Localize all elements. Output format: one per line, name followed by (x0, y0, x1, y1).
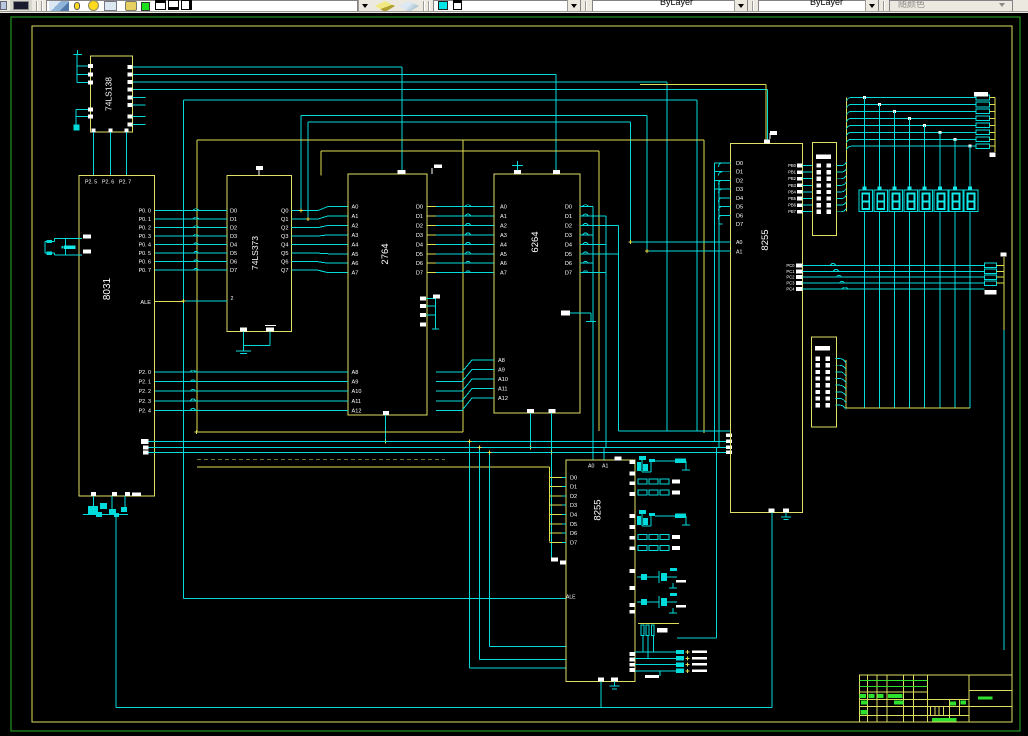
RN2 top bar (815, 346, 830, 351)
6264 VCC symbol top (512, 165, 523, 167)
ground at 8255 U4 (785, 513, 787, 517)
wires 6264 bottom to bus (530, 413, 532, 448)
svg-text:D5: D5 (736, 205, 743, 211)
wire ground rail from 8031 down (115, 514, 117, 707)
6264 WE pin right (561, 311, 570, 316)
RN1 output hooks (837, 162, 847, 166)
svg-text:D6: D6 (565, 261, 572, 267)
svg-text:PC2: PC2 (786, 275, 795, 280)
8031 bottom pins (91, 492, 96, 496)
address bus Q0-Q7 to 2764 A0-A7 (292, 207, 349, 211)
wire A0 to 8255 U5 top (592, 441, 594, 460)
svg-text:D2: D2 (416, 223, 423, 229)
svg-text:PB2: PB2 (788, 176, 797, 181)
svg-text:A9: A9 (498, 368, 505, 374)
sun icon (88, 0, 99, 11)
svg-text:D2: D2 (230, 226, 237, 232)
svg-text:P0. 5: P0. 5 (139, 251, 151, 257)
resistor network RN1 body (813, 143, 837, 236)
wire ALE vertical to 8255 U5 (183, 100, 185, 599)
svg-text:PB0: PB0 (788, 163, 797, 168)
PPI U5 8255 body (566, 460, 635, 681)
decoder U3 74LS138 body (91, 56, 133, 132)
2764 top pin (398, 170, 406, 174)
layer combo field (46, 0, 358, 12)
svg-text:ALE: ALE (140, 300, 151, 306)
2764 pull-up network (426, 298, 435, 300)
svg-text:Q6: Q6 (281, 260, 288, 266)
wire VCC to 74LS138 inputs (76, 55, 78, 83)
svg-text:D0: D0 (565, 205, 572, 211)
segment bus horizontals (846, 98, 851, 102)
8031 bus pins right lower (141, 439, 149, 444)
latch U2 74LS373 body (227, 176, 292, 332)
layer name text (155, 0, 166, 10)
6264 top pins (514, 170, 521, 174)
svg-text:D4: D4 (570, 513, 577, 519)
svg-text:A2: A2 (352, 223, 359, 229)
key driver Q2 cluster (639, 510, 646, 514)
svg-text:P2. 7: P2. 7 (119, 180, 131, 186)
plotstyle combo disabled (889, 0, 1013, 12)
wire 74LS138 Y0 to 2764 CE (133, 66, 402, 68)
bus cyan WR line (149, 447, 731, 449)
svg-text:2764: 2764 (380, 243, 391, 264)
reset circuit under 8031 (93, 496, 95, 506)
key driver Q1 output network (655, 460, 686, 462)
ground at 8255 U5 (614, 681, 616, 686)
bus A8-A12 to 6264 (436, 360, 494, 372)
svg-text:A1: A1 (602, 464, 608, 470)
toolbar bottom edge (0, 11, 1028, 12)
svg-text:8255: 8255 (760, 229, 771, 250)
svg-text:D3: D3 (230, 234, 237, 240)
lineweight combo (758, 0, 879, 12)
crystal X1 circuit (55, 238, 83, 240)
plot icon (125, 1, 137, 11)
key driver Q2 output network (655, 515, 686, 517)
wire yellow loop left (196, 140, 198, 432)
svg-text:D7: D7 (570, 540, 577, 546)
pull-up resistor column RP (638, 623, 679, 625)
74LS138 bottom pins (92, 129, 96, 133)
wire 74LS138 Y1 to 6264 CE (133, 74, 557, 76)
8255 U5 right-edge pins (630, 460, 635, 464)
svg-text:PB6: PB6 (788, 203, 797, 208)
svg-text:A1: A1 (352, 214, 359, 220)
layers stack icon (49, 1, 69, 11)
bus 2764 D to 6264 side (427, 206, 494, 208)
6264 data stubs to vertical bundle (580, 206, 593, 208)
svg-text:P0. 1: P0. 1 (139, 217, 151, 223)
svg-text:D1: D1 (416, 214, 423, 220)
svg-text:D2: D2 (565, 223, 572, 229)
svg-text:D0: D0 (736, 161, 743, 167)
svg-text:D4: D4 (230, 243, 237, 249)
LED indicator column (635, 651, 676, 653)
svg-text:A1: A1 (736, 249, 742, 255)
wires 74LS138 to 8031 P2.5-P2.7 (93, 132, 95, 175)
svg-text:74LS373: 74LS373 (250, 236, 260, 270)
svg-text:D6: D6 (416, 261, 423, 267)
svg-text:D1: D1 (230, 217, 237, 223)
svg-text:D4: D4 (736, 196, 743, 202)
wire ALE to latch (155, 301, 184, 303)
make-layer-current icon (375, 1, 395, 12)
svg-text:A4: A4 (500, 242, 507, 248)
svg-text:P0. 7: P0. 7 (139, 268, 151, 274)
8255 U5 bottom pins (598, 678, 604, 682)
svg-text:A0: A0 (588, 464, 594, 470)
driver stage Q4 (637, 601, 659, 603)
key driver Q1 cluster (639, 456, 646, 460)
wire A0 line from Q1 to 8255 U4 (307, 122, 309, 219)
wire U5 ground to rail (600, 681, 602, 707)
linetype combo (592, 0, 748, 12)
svg-text:Q0: Q0 (281, 209, 288, 215)
svg-text:A12: A12 (352, 408, 362, 414)
svg-text:PC1: PC1 (786, 269, 795, 274)
74LS138 left pins (88, 64, 93, 68)
svg-text:A0: A0 (736, 240, 742, 246)
svg-text:D7: D7 (565, 271, 572, 277)
svg-text:PB4: PB4 (788, 189, 797, 194)
8255 U4 bottom pins (769, 509, 775, 513)
key switch row S4 (638, 546, 647, 551)
svg-text:A7: A7 (500, 271, 507, 277)
2764 VPP flag symbol (434, 165, 442, 169)
wire bus to U5 pin row3 (488, 453, 490, 647)
svg-text:D6: D6 (570, 531, 577, 537)
wire yellow vertical at 8255 U4 left (703, 140, 705, 433)
svg-text:P0. 2: P0. 2 (139, 226, 151, 232)
svg-text:ALE: ALE (566, 595, 576, 601)
svg-text:D4: D4 (416, 242, 423, 248)
ground wire 74LS373 (243, 332, 245, 346)
title block text bars (860, 694, 993, 722)
svg-text:D5: D5 (416, 252, 423, 258)
svg-text:PB3: PB3 (788, 183, 797, 188)
svg-text:2: 2 (231, 296, 234, 302)
segment resistors R1-R8 right column (976, 95, 990, 100)
8255 U4 PC pin labels (796, 263, 803, 267)
lock icon (104, 1, 117, 11)
svg-text:6264: 6264 (530, 231, 541, 252)
bus cyan RD line (149, 440, 731, 442)
2764 control pins right (420, 297, 426, 301)
74LS138 right output stubs (133, 96, 146, 98)
svg-text:A5: A5 (352, 252, 359, 258)
wire 74LS138 Y2 down to bus (133, 81, 667, 83)
wire 8255 U4 ground down (771, 513, 773, 708)
color combo (433, 0, 581, 12)
svg-text:P0. 6: P0. 6 (139, 260, 151, 266)
wire ALE net top horizontal (184, 99, 698, 101)
wire 74LS138 Y3 to 8255 U4 CS (133, 88, 768, 90)
svg-text:A6: A6 (500, 261, 507, 267)
8255 U5 top pin (615, 457, 622, 461)
8255 U5 data rungs from yellow ladder (550, 476, 562, 478)
svg-text:P2. 4: P2. 4 (139, 408, 151, 414)
8255 U5 CS pin left (560, 561, 566, 565)
svg-text:A8: A8 (498, 358, 505, 364)
svg-text:A11: A11 (498, 387, 508, 393)
8031 left xtal pins (83, 235, 91, 239)
svg-text:D2: D2 (570, 494, 577, 500)
svg-text:A1: A1 (500, 214, 507, 220)
svg-text:8031: 8031 (102, 277, 113, 300)
bus phantom dashed line (197, 459, 445, 461)
svg-text:A6: A6 (352, 261, 359, 267)
vertical bundle 6264 data down (592, 207, 594, 442)
74LS373 LE pin symbol top (256, 166, 263, 170)
svg-text:Q3: Q3 (281, 234, 288, 240)
svg-text:P2. 0: P2. 0 (139, 370, 151, 376)
svg-text:A0: A0 (500, 205, 507, 211)
svg-text:D5: D5 (565, 252, 572, 258)
svg-text:Q2: Q2 (281, 226, 288, 232)
wires resistors to LED rows (642, 636, 644, 653)
toolbar partial icon left (0, 1, 7, 10)
bus yellow upper rail (197, 431, 463, 433)
8255 U4 A0 A1 wires (631, 241, 731, 243)
8255 U4 PA pins right (797, 164, 803, 168)
RN1 top bar (816, 155, 831, 160)
layer-previous icon (399, 1, 419, 12)
svg-text:P2. 2: P2. 2 (139, 389, 151, 395)
svg-text:PC3: PC3 (786, 281, 795, 286)
port C digit lines (803, 264, 985, 266)
RN2 resistor elements (816, 357, 821, 361)
bus cyan PSEN line (149, 452, 731, 454)
RN1 collector vertical yellow (845, 98, 847, 212)
SRAM U7 6264 body (494, 174, 580, 413)
svg-text:A4: A4 (352, 242, 359, 248)
bus pins at 8255 U4 left (726, 434, 732, 438)
wire bus to U5 pin row2 (478, 448, 480, 660)
wire cascade down to keypad drive (716, 448, 718, 638)
RN2 output hooks (836, 359, 846, 364)
svg-text:A9: A9 (352, 380, 359, 386)
2764 bottom pin and wire (383, 411, 389, 415)
6264 bottom pins (527, 409, 534, 413)
svg-text:A12: A12 (498, 396, 508, 402)
svg-text:D1: D1 (736, 170, 743, 176)
8255 U4 top pin (764, 140, 770, 144)
display column verticals (864, 98, 866, 409)
svg-text:A10: A10 (352, 389, 362, 395)
P2.0-P2.4 bus to 2764 A8-A12 (155, 371, 348, 373)
P0 data bus 8031 to 74LS373 (155, 210, 227, 212)
svg-text:D4: D4 (565, 242, 572, 248)
svg-text:A11: A11 (352, 399, 362, 405)
svg-text:PC0: PC0 (786, 263, 795, 268)
MCU U1 8031 body (79, 176, 155, 497)
wire yellow loop mid (320, 151, 322, 176)
resistor network RN2 body (812, 337, 837, 427)
svg-text:P0. 0: P0. 0 (139, 209, 151, 215)
svg-text:A7: A7 (352, 271, 359, 277)
key switch row S2 (638, 490, 647, 495)
svg-text:D3: D3 (416, 233, 423, 239)
svg-text:P2. 6: P2. 6 (102, 180, 114, 186)
wire resistors to VCC rail right (990, 97, 996, 99)
PPI U4 8255 body (730, 144, 802, 513)
svg-text:D7: D7 (736, 222, 743, 228)
svg-text:D3: D3 (565, 233, 572, 239)
digit driver resistors (985, 263, 997, 267)
RN1 resistor elements (817, 164, 822, 168)
wire A1 line from Q0 to 8255 U4 (300, 115, 302, 210)
svg-text:A3: A3 (500, 233, 507, 239)
svg-text:D2: D2 (736, 178, 743, 184)
svg-text:D6: D6 (736, 213, 743, 219)
svg-text:D3: D3 (570, 503, 577, 509)
svg-text:D7: D7 (416, 271, 423, 277)
ground square at 74LS138 (76, 109, 88, 111)
svg-text:D6: D6 (230, 260, 237, 266)
svg-text:A8: A8 (352, 370, 359, 376)
RN2 collector rail yellow (846, 407, 970, 409)
wire A1 to 8255 U5 top (603, 448, 605, 460)
svg-text:A5: A5 (500, 252, 507, 258)
svg-text:P0. 4: P0. 4 (139, 243, 151, 249)
svg-text:D5: D5 (230, 251, 237, 257)
wire bus to U5 pin row1 (469, 441, 471, 668)
svg-text:74LS138: 74LS138 (104, 77, 114, 111)
yellow stub rows at 2764 D outputs (427, 206, 436, 208)
wire digit resistors to right rail (997, 264, 1002, 266)
layer color square green (141, 2, 150, 11)
svg-text:D3: D3 (736, 187, 743, 193)
VCC symbol at 74LS138 (73, 54, 82, 56)
key switch row S1 (638, 479, 647, 484)
svg-text:D7: D7 (230, 268, 237, 274)
8255 U4 data bundle from bus (713, 163, 715, 441)
bulb icon (74, 2, 80, 10)
EPROM U6 2764 body (348, 174, 427, 415)
svg-text:Q5: Q5 (281, 251, 288, 257)
svg-text:D0: D0 (416, 205, 423, 211)
bus yellow lower rail (197, 466, 550, 468)
title block grid (860, 675, 1012, 722)
svg-text:Q1: Q1 (281, 217, 288, 223)
svg-text:8255: 8255 (593, 499, 604, 520)
svg-text:Q7: Q7 (281, 268, 288, 274)
svg-text:P2. 3: P2. 3 (139, 399, 151, 405)
svg-text:P0. 3: P0. 3 (139, 234, 151, 240)
wire yellow VCC top rail to 8255 U4 (640, 84, 766, 86)
RN2 collector vertical yellow (845, 360, 847, 408)
svg-text:P2. 1: P2. 1 (139, 380, 151, 386)
svg-text:D5: D5 (570, 522, 577, 528)
svg-text:A3: A3 (352, 233, 359, 239)
svg-text:D0: D0 (570, 475, 577, 481)
74LS138 right pins (128, 65, 133, 69)
svg-text:D1: D1 (565, 214, 572, 220)
svg-text:A10: A10 (498, 377, 508, 383)
svg-text:PB1: PB1 (788, 170, 797, 175)
svg-text:P2. 5: P2. 5 (85, 180, 97, 186)
svg-text:PB5: PB5 (788, 196, 797, 201)
7-segment display block DS1-DS8 (859, 187, 873, 212)
keypad ground stub (659, 671, 661, 676)
74LS373 bottom pins (240, 328, 247, 332)
svg-text:D0: D0 (230, 209, 237, 215)
svg-text:D1: D1 (570, 485, 577, 491)
key switch row S3 (638, 535, 647, 540)
svg-text:A2: A2 (500, 223, 507, 229)
driver stage Q3 (637, 576, 659, 578)
toolbar named-view icon (10, 0, 32, 11)
svg-text:Q4: Q4 (281, 243, 288, 249)
bus cyan control line to U4 (619, 430, 731, 432)
svg-text:PB7: PB7 (788, 209, 797, 214)
svg-text:A0: A0 (352, 205, 359, 211)
svg-text:PC4: PC4 (786, 287, 795, 292)
